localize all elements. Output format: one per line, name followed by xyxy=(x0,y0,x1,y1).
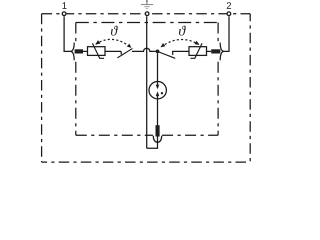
outer enclosure dash-dot box xyxy=(42,13,251,15)
thermal disconnect blade (right, filled) xyxy=(211,49,220,53)
thermal disconnect blade (left, filled) xyxy=(75,49,83,53)
inner box right edge (gap at branch crossing) xyxy=(217,23,219,136)
gas-filled indicator dot xyxy=(161,92,163,94)
switch blade (right) xyxy=(158,52,175,59)
terminal 2 xyxy=(227,12,231,16)
inner box bottom edge (gap at PE fork) xyxy=(76,134,218,136)
thermal coupling arc (left, dashed, double arrows) xyxy=(96,39,131,47)
plug-in contact fork (right) xyxy=(220,43,223,61)
junction node (dot) xyxy=(156,50,160,54)
thermal coupling arc (right, dashed, double arrows) xyxy=(161,40,199,47)
plug-in contact fork (left) xyxy=(71,43,74,61)
theta label right xyxy=(179,26,186,36)
varistor RV2 diagonal with tail xyxy=(190,43,202,58)
inner protection-circuit dash-dot box: top edge xyxy=(76,22,218,24)
label terminal 2 xyxy=(227,2,231,9)
PE conductor (line A) from centre terminal down to bottom U xyxy=(146,16,148,148)
bottom thermal disconnect blade (filled) xyxy=(156,125,160,136)
centre PE terminal xyxy=(145,12,149,16)
label terminal 1 xyxy=(62,2,66,9)
varistor RV1 body xyxy=(88,47,106,56)
bottom plug-in contact fork (opening up) xyxy=(153,136,161,143)
earth symbol above PE terminal (grey) xyxy=(141,0,153,9)
theta label left xyxy=(111,26,118,36)
wire with hop over PE conductor xyxy=(132,48,156,51)
line B: junction down through gas discharge tube to bottom fork xyxy=(157,53,159,142)
fixed contact + wire to varistor (right) xyxy=(173,51,189,55)
inner box left edge (gap at branch crossing) xyxy=(75,23,77,136)
varistor RV1 diagonal with tail xyxy=(92,43,104,58)
wire: to varistor xyxy=(83,50,87,52)
wire: varistor to switch contact xyxy=(105,51,121,54)
terminal 1 xyxy=(62,12,66,16)
bottom electrode arrow (up) xyxy=(156,91,160,96)
varistor RV2 body xyxy=(189,47,207,56)
bottom U link xyxy=(147,143,158,149)
switch blade (left) xyxy=(117,49,132,58)
wire: varistor to thermal blade (right) xyxy=(207,50,212,52)
wire: fork to terminal 2 riser xyxy=(223,16,229,51)
gas discharge tube F1 (spark gap) xyxy=(149,82,166,99)
wire: terminal 1 down and to fork xyxy=(64,16,71,51)
top electrode arrow (down) xyxy=(156,85,160,90)
